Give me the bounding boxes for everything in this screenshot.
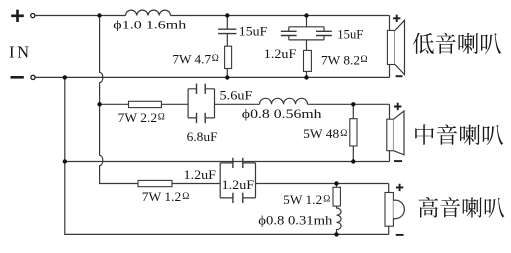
svg-text:ϕ0.8 0.56mh: ϕ0.8 0.56mh [242,107,323,121]
label woofer 低音喇叭 [413,33,501,54]
svg-text:ϕ0.8 0.31mh: ϕ0.8 0.31mh [258,214,333,228]
svg-text:Ω: Ω [158,113,165,123]
capacitor pair C4 1.2uF/1.2uF [220,163,255,198]
resistor R5 7W 1.2 [138,180,172,186]
svg-text:5.6uF: 5.6uF [220,87,253,102]
svg-text:15uF: 15uF [337,26,363,41]
wire midrange feed [100,103,129,105]
label midrange 中音喇叭 [415,124,503,145]
wire woofer bottom rail [35,76,389,78]
capacitor pair C3 5.6uF/6.8uF [188,89,214,118]
wire top rail right [171,15,390,17]
svg-text:7W 2.2: 7W 2.2 [118,110,158,125]
minus input terminal [11,76,24,79]
svg-text:Ω: Ω [212,54,219,64]
node mid feed [97,102,101,106]
svg-text:1.2uF: 1.2uF [264,46,297,61]
svg-text:6.8uF: 6.8uF [187,129,218,144]
inductor L2 0.56mh [260,98,308,104]
wire left return branch [65,77,389,234]
inductor L1 1.6mh [126,10,171,15]
svg-text:Ω: Ω [182,192,189,202]
tweeter speaker LS3 [388,184,390,235]
resistor R4 5W 48 [352,104,354,161]
svg-text:ϕ1.0 1.6mh: ϕ1.0 1.6mh [113,17,186,31]
svg-text:Ω: Ω [323,195,330,205]
wire midrange bottom rail [65,161,390,163]
node R6 top [334,181,338,185]
node R1 bottom [225,75,229,79]
label tweeter 高音喇叭 [419,197,505,218]
svg-text:15uF: 15uF [239,23,267,38]
resistor R1 7W 4.7 [225,46,232,68]
capacitor C1 15uF [226,16,228,30]
resistor R6 5W 1.2 [336,184,338,188]
svg-text:7W 8.2: 7W 8.2 [321,53,360,68]
svg-text:7W 1.2: 7W 1.2 [142,189,182,204]
node top-branch [97,13,101,17]
svg-text:5W 48: 5W 48 [303,126,339,141]
node R4 top [351,102,355,106]
svg-text:1.2uF: 1.2uF [184,167,217,182]
svg-text:7W 4.7: 7W 4.7 [172,52,211,67]
node R2 bottom [304,75,308,79]
svg-text:5W 1.2: 5W 1.2 [283,192,322,207]
wire top rail + inductor L1 [35,15,125,17]
svg-text:IN: IN [9,42,32,61]
svg-text:1.2uF: 1.2uF [222,177,255,192]
resistor R2 7W 8.2 [304,50,312,71]
inductor L3 0.31mh [337,206,342,234]
node C1 tap [225,13,229,17]
node minus-branch [63,75,67,79]
resistor R3 7W 2.2 [129,101,162,107]
svg-text:Ω: Ω [340,129,347,139]
midrange speaker LS2 [389,104,391,161]
wire centre branch with crossover hops [100,16,138,184]
node R4 bottom [351,159,355,163]
node mid rail [63,159,67,163]
woofer speaker LS1 [389,16,391,78]
node C2 tap [304,13,308,17]
node L3 bottom [334,232,338,236]
capacitor pair C2 15uF/1.2uF [306,16,308,27]
plus input terminal [11,10,24,22]
svg-text:Ω: Ω [361,55,368,65]
